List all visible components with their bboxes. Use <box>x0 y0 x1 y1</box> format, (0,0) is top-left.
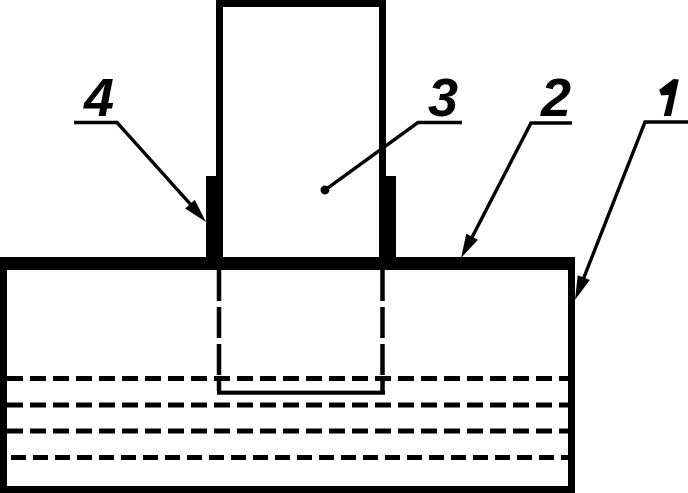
svg-text:3: 3 <box>428 68 458 128</box>
liquid level dashed line 4 <box>11 455 568 460</box>
hidden pipe bottom edge <box>217 391 385 395</box>
pipe right wall <box>379 0 386 257</box>
pipe left wall (item 3 body) <box>216 0 223 257</box>
liquid level dashed line 1 <box>7 376 568 381</box>
label 2 arrowhead <box>461 234 478 258</box>
label 1 leader line <box>579 122 688 290</box>
tank right wall <box>568 257 575 493</box>
label 3 leader line <box>325 123 462 191</box>
hidden pipe right edge (dashed) <box>380 270 385 391</box>
label 2 leader line <box>466 123 572 249</box>
tank top cover plate (item 2) <box>0 257 575 270</box>
liquid level dashed line 2 <box>7 403 568 408</box>
right collar weld <box>386 176 396 257</box>
hidden pipe left edge (dashed) <box>217 270 222 391</box>
svg-text:4: 4 <box>83 68 114 128</box>
left collar weld (item 4) <box>206 176 216 257</box>
liquid level dashed line 3 <box>7 429 568 434</box>
svg-text:2: 2 <box>540 68 571 128</box>
label 4 arrowhead <box>185 200 206 222</box>
label 4 leader line <box>74 123 201 217</box>
label 1 digit <box>659 79 679 116</box>
tank bottom wall <box>0 486 575 493</box>
label 3 dot <box>321 186 330 195</box>
pipe top wall <box>216 0 386 7</box>
tank left wall <box>0 257 7 493</box>
label 1 arrowhead <box>575 275 590 300</box>
